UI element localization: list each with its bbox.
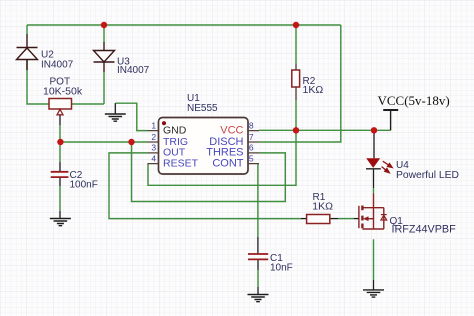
svg-text:1: 1 [151, 120, 156, 130]
svg-text:CONT: CONT [212, 157, 243, 169]
svg-text:100nF: 100nF [70, 179, 98, 190]
svg-text:2: 2 [151, 132, 156, 142]
svg-text:NE555: NE555 [187, 103, 218, 114]
svg-text:IN4007: IN4007 [41, 59, 74, 70]
svg-text:VCC(5v-18v): VCC(5v-18v) [378, 93, 450, 108]
svg-text:VCC: VCC [220, 124, 243, 136]
svg-text:1KΩ: 1KΩ [303, 84, 324, 96]
svg-text:7: 7 [249, 132, 254, 142]
svg-text:8: 8 [249, 120, 254, 130]
svg-text:10nF: 10nF [270, 262, 293, 273]
svg-text:Powerful LED: Powerful LED [396, 170, 459, 181]
svg-text:GND: GND [163, 124, 187, 136]
svg-text:6: 6 [249, 143, 254, 153]
svg-text:1KΩ: 1KΩ [312, 201, 333, 213]
svg-text:U1: U1 [187, 93, 200, 104]
svg-text:RESET: RESET [163, 157, 199, 169]
svg-text:IN4007: IN4007 [117, 65, 150, 76]
svg-text:IRFZ44VPBF: IRFZ44VPBF [392, 224, 457, 236]
svg-text:3: 3 [151, 143, 156, 153]
svg-text:4: 4 [151, 153, 156, 163]
svg-text:5: 5 [249, 153, 254, 163]
svg-text:10K-50k: 10K-50k [43, 85, 83, 97]
